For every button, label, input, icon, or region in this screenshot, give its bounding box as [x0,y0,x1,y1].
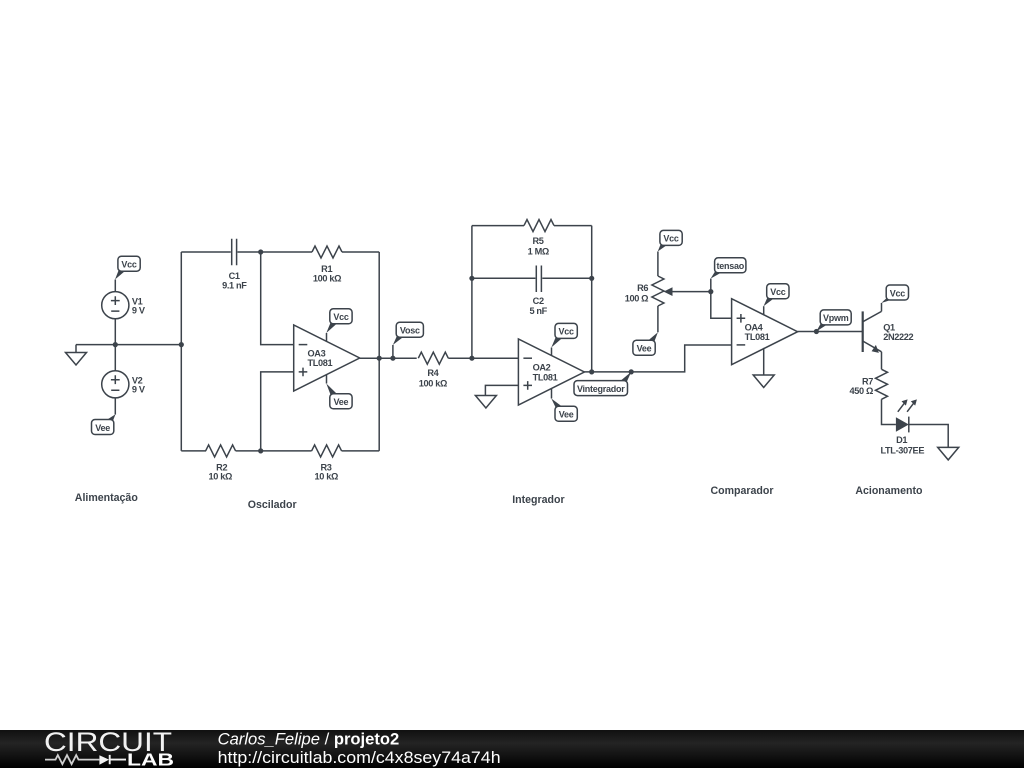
wire loop right [591,226,593,372]
node junction C2 left [469,276,474,281]
wire OA4 output [798,331,863,333]
svg-text:10 kΩ: 10 kΩ [209,472,233,482]
resistor R7 [850,369,888,399]
svg-text:Carlos_Felipe / projeto2: Carlos_Felipe / projeto2 [218,730,400,749]
svg-text:450 Ω: 450 Ω [850,386,874,396]
svg-text:5 nF: 5 nF [529,306,547,316]
op-amp OA2 [518,339,584,405]
resistor R2 [206,445,236,482]
svg-text:Vpwm: Vpwm [823,313,849,323]
node junction Vosc [390,356,395,361]
flag Vcc (V1) [115,256,140,279]
flag Vcc (OA4) [764,284,790,306]
svg-text:Vee: Vee [559,410,574,420]
svg-text:9 V: 9 V [132,306,146,316]
svg-text:Vee: Vee [334,397,349,407]
svg-text:R4: R4 [427,368,439,378]
resistor R5 [524,220,554,257]
svg-text:TL081: TL081 [745,332,770,342]
svg-text:OA4: OA4 [745,322,764,332]
wire OA2 output [584,345,731,372]
node junction C2 right [589,276,594,281]
wire Q1 emitter [881,352,883,370]
node junction C1/R1/inverting [258,249,263,254]
svg-text:9 V: 9 V [132,385,146,395]
wire [448,357,518,359]
wire [236,450,312,452]
svg-text:TL081: TL081 [308,358,333,368]
node junction R2/R3 [258,448,263,453]
LED D1 [880,399,924,455]
wire OA2 Vcc pin [551,348,553,356]
flag Vee (OA2) [551,399,577,422]
voltage source V1 [102,292,146,319]
svg-text:R6: R6 [637,283,648,293]
ground (power) [66,345,87,365]
flag Vee (OA3) [326,384,352,409]
svg-text:tensao: tensao [716,261,744,271]
wire [238,251,313,253]
svg-text:Alimentação: Alimentação [75,492,139,504]
svg-text:Vee: Vee [637,344,652,354]
capacitor C1 [222,239,247,291]
flag Vcc (Q1) [881,285,908,303]
op-amp OA4 [732,299,798,365]
svg-text:C1: C1 [229,271,240,281]
wire OA3 output [360,357,417,359]
node junction loop/output [589,369,594,374]
wire loop left [471,226,473,359]
node junction feedback [377,356,382,361]
wire power rail [76,344,181,346]
svg-text:Vcc: Vcc [333,312,349,322]
flag tensao [711,258,746,279]
svg-text:10 kΩ: 10 kΩ [315,472,339,482]
resistor R4 [418,352,448,388]
wire LED to ground [909,425,948,448]
svg-text:Vcc: Vcc [663,234,679,244]
svg-text:Vcc: Vcc [890,288,906,298]
wire OA4 Vee pin to ground [763,348,765,375]
resistor R1 [312,246,342,283]
wire OA2 noninverting to ground [485,385,518,395]
wire R6 bottom lead [657,306,659,332]
wire R6 top lead [657,252,659,277]
node junction rail-osc [179,342,184,347]
flag Vosc [393,322,424,345]
wire wiper to OA4 [711,292,732,319]
svg-text:OA3: OA3 [308,348,326,358]
ground (output) [938,447,959,460]
node junction R4/loop [469,356,474,361]
wire OA3 Vee pin [326,375,328,384]
svg-text:Acionamento: Acionamento [855,485,923,497]
svg-text:http://circuitlab.com/c4x8sey7: http://circuitlab.com/c4x8sey74a74h [218,749,501,767]
wire OA3 Vcc pin [326,333,328,342]
flag Vcc (R6) [658,230,683,251]
svg-text:100 kΩ: 100 kΩ [313,273,341,283]
wire [554,225,592,227]
ground (OA4) [753,375,774,388]
flag Vee (R6) [633,332,658,355]
svg-text:TL081: TL081 [533,372,558,382]
svg-text:Comparador: Comparador [711,485,774,497]
op-amp OA3 [294,325,360,391]
wire [114,280,116,292]
logo resistor-diode symbol [45,755,126,765]
flag Vpwm [816,310,851,332]
svg-text:Integrador: Integrador [512,494,564,506]
capacitor C2 [529,266,547,317]
wire top left [181,251,231,253]
flag Vintegrador [574,372,631,396]
svg-text:OA2: OA2 [533,363,551,373]
svg-text:Oscilador: Oscilador [248,499,297,511]
resistor R3 [312,445,342,482]
transistor Q1 [863,311,914,353]
svg-text:9.1 nF: 9.1 nF [222,281,247,291]
wire loop top [472,225,524,227]
wire [342,450,380,452]
svg-text:100 Ω: 100 Ω [625,294,649,304]
ground (OA2) [475,396,496,409]
wire noninverting input [261,372,294,451]
svg-text:100 kΩ: 100 kΩ [419,379,447,389]
node junction V1-V2 [113,342,118,347]
voltage source V2 [102,371,146,398]
wire feedback box left [180,252,182,451]
svg-text:LAB: LAB [127,750,174,768]
flag Vcc (OA2) [551,323,577,347]
wire feedback box right [378,252,380,451]
wire Q1 collector [881,303,883,311]
svg-text:R5: R5 [532,236,543,246]
svg-text:2N2222: 2N2222 [883,332,913,342]
svg-text:1 MΩ: 1 MΩ [528,246,549,256]
wire bottom left [181,450,206,452]
wire tensao stub [710,279,712,292]
svg-text:Vcc: Vcc [770,287,786,297]
wire Vosc stub [392,345,394,358]
flag Vee (V2) [92,414,116,434]
node junction Vpwm [814,329,819,334]
wire inverting input [261,252,294,345]
wire [114,319,116,345]
wire [342,251,379,253]
svg-text:Vcc: Vcc [559,327,575,337]
svg-text:Q1: Q1 [883,322,895,332]
svg-text:C2: C2 [533,296,544,306]
svg-text:Vintegrador: Vintegrador [577,384,625,394]
svg-text:Vosc: Vosc [400,326,420,336]
wire OA2 Vee pin [551,389,553,399]
svg-text:Vee: Vee [95,423,110,433]
node junction wiper [708,289,713,294]
svg-text:D1: D1 [896,435,907,445]
wire [114,345,116,415]
svg-text:LTL-307EE: LTL-307EE [880,445,924,455]
node junction Vintegrador [629,369,634,374]
svg-text:Vcc: Vcc [121,260,137,270]
flag Vcc (OA3) [326,309,352,333]
wire C2 row [472,277,592,279]
potentiometer R6 [625,276,711,306]
wire R7 to LED [882,399,896,424]
wire OA4 Vcc pin [763,306,765,315]
